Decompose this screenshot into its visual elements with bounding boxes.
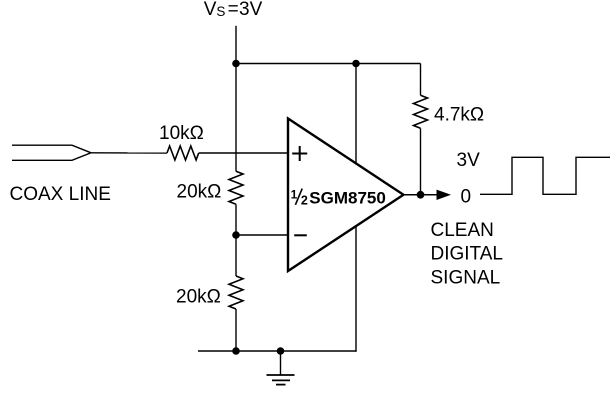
svg-text:10kΩ: 10kΩ — [159, 123, 204, 144]
junction dot ground symbol tap — [277, 347, 285, 355]
wire VS node down to R2 (crosses input wire, no junction) — [235, 64, 237, 172]
svg-text:3V: 3V — [239, 0, 263, 20]
wire R3 down to ground rail — [235, 309, 237, 351]
op-amp -IN minus symbol — [294, 234, 307, 236]
junction dot VS node — [232, 60, 240, 68]
wire op-amp output to arrow — [404, 194, 438, 196]
svg-text:2: 2 — [301, 194, 308, 208]
svg-text:V: V — [204, 0, 217, 20]
svg-text:4.7kΩ: 4.7kΩ — [434, 105, 484, 126]
junction dot -IN divider node — [232, 231, 240, 239]
svg-text:1: 1 — [291, 188, 298, 202]
wire R2 to R3 through -IN node — [235, 204, 237, 276]
wire from VS label down to top rail — [235, 26, 237, 64]
svg-text:DIGITAL: DIGITAL — [431, 244, 504, 265]
wire top rail corner down to R4 — [420, 64, 422, 96]
svg-text:CLEAN: CLEAN — [431, 220, 494, 241]
svg-text:SIGNAL: SIGNAL — [431, 268, 501, 289]
supply label VS = 3V — [204, 0, 263, 20]
svg-text:S: S — [216, 4, 225, 19]
wire coax tip to R1 — [91, 152, 167, 154]
svg-text:20kΩ: 20kΩ — [176, 287, 221, 308]
resistor R3 20kOhm lower vertical zigzag — [229, 276, 243, 309]
label 1/2 SGM8750 — [291, 188, 386, 208]
coax connector symbol — [12, 145, 91, 160]
op-amp +IN plus symbol — [292, 146, 307, 161]
svg-text:20kΩ: 20kΩ — [177, 182, 222, 203]
wire bottom ground rail — [198, 350, 357, 352]
svg-text:3V: 3V — [457, 150, 481, 171]
wire op-amp supply branch vertical (top rail to ground rail) — [355, 64, 357, 352]
resistor R4 4.7kOhm vertical zigzag — [414, 95, 428, 128]
wire top supply rail — [236, 63, 421, 65]
op-amp U1 triangle — [288, 119, 404, 272]
junction dot output node — [417, 191, 425, 199]
junction dot R3 at ground rail — [232, 347, 240, 355]
svg-text:COAX LINE: COAX LINE — [10, 184, 111, 205]
svg-text:0: 0 — [461, 186, 472, 207]
resistor R1 10kOhm horizontal zigzag — [167, 146, 199, 160]
svg-text:=: = — [228, 0, 239, 20]
resistor R2 20kOhm upper vertical zigzag — [229, 171, 243, 204]
output arrowhead — [437, 190, 450, 199]
wire -IN node to op-amp -IN — [236, 234, 288, 236]
svg-text:SGM8750: SGM8750 — [309, 188, 386, 207]
wire R1 to op-amp +IN — [199, 152, 288, 154]
wire R4 down to output node — [420, 128, 422, 194]
ground symbol — [267, 351, 295, 385]
clean digital signal waveform — [480, 157, 610, 194]
junction dot top rail / op-amp supply branch — [352, 60, 360, 68]
